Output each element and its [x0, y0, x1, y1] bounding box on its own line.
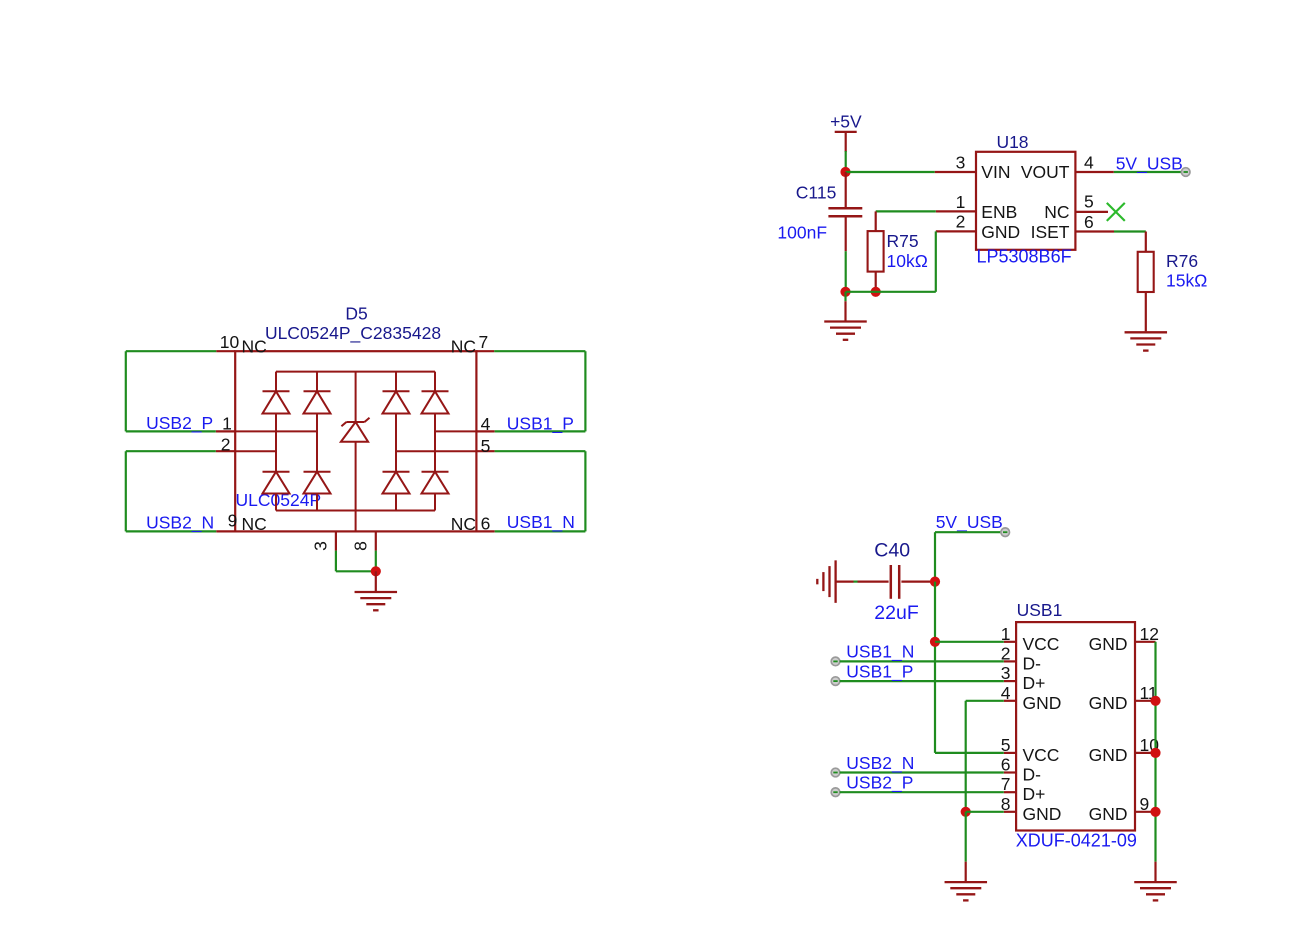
pin name D- (pin 6): [1023, 765, 1042, 785]
label C115: [796, 183, 837, 203]
label U18: [996, 132, 1028, 152]
svg-text:USB2_N: USB2_N: [846, 753, 914, 774]
svg-text:LP5308B6F: LP5308B6F: [977, 247, 1072, 267]
pin name GND (right 4): [1089, 804, 1128, 824]
svg-text:8: 8: [350, 541, 370, 551]
wire USB2_P loop: [126, 351, 216, 431]
wire gnd net vertical to U18 GND: [935, 231, 937, 291]
diode D5 top 4: [422, 391, 449, 413]
node: inner top rail: [276, 371, 435, 373]
svg-text:VCC: VCC: [1023, 634, 1060, 654]
svg-text:1: 1: [222, 413, 232, 433]
wire column 3 middle: [395, 414, 397, 472]
wire column 2 upper: [316, 372, 318, 392]
wire to right ground: [1154, 862, 1156, 882]
net port USB2_N: [831, 768, 840, 777]
svg-text:USB2_P: USB2_P: [146, 413, 213, 434]
value XDUF-0421-09: [1016, 830, 1137, 850]
label R76: [1166, 251, 1198, 271]
wire VOUT to 5V_USB port: [1114, 171, 1182, 173]
wire pin4 GND to pin8: [966, 701, 1004, 812]
pin 12 stub USB1: [1135, 624, 1159, 644]
wire C115 to gnd node: [845, 251, 847, 292]
svg-text:NC: NC: [1044, 202, 1069, 222]
svg-text:GND: GND: [1089, 634, 1128, 654]
svg-text:5: 5: [1084, 192, 1094, 212]
wire +5V to node: [845, 151, 847, 172]
label R75: [887, 231, 919, 251]
IC U18 (LP5308B6F regulator): [976, 152, 1075, 250]
label USB1: [1017, 600, 1063, 620]
svg-text:GND: GND: [981, 222, 1020, 242]
wire 5V_USB: [935, 531, 1001, 533]
pin name GND (right 3): [1089, 745, 1128, 765]
pin 6 stub U18 ISET: [1075, 212, 1114, 232]
net label 5V_USB: [1116, 154, 1183, 175]
power flag +5V: [830, 112, 862, 153]
svg-text:VOUT: VOUT: [1021, 162, 1070, 182]
wire 5V_USB down to C40: [934, 532, 936, 581]
svg-text:12: 12: [1140, 624, 1159, 644]
svg-text:D5: D5: [345, 303, 367, 323]
pin name NC (pin 9): [242, 514, 267, 534]
svg-text:3: 3: [311, 541, 331, 551]
junction GND rail node 9: [1150, 807, 1160, 817]
wire USB2_N loop: [126, 451, 216, 531]
svg-text:10kΩ: 10kΩ: [887, 251, 928, 271]
pin 10 stub: [216, 332, 239, 352]
pin 5 stub: [476, 436, 494, 456]
diode D5 bottom 4: [422, 472, 449, 494]
connector USB1 body: [1016, 622, 1135, 830]
pin name D+ (pin 3): [1023, 673, 1046, 693]
pin 11 stub USB1: [1135, 683, 1158, 703]
wire pin4 internal: [435, 430, 476, 432]
wire column 2 middle: [316, 414, 318, 472]
pin name D+ (pin 7): [1023, 784, 1046, 804]
label ULC0524P_C2835428: [265, 323, 441, 344]
svg-text:XDUF-0421-09: XDUF-0421-09: [1016, 830, 1137, 850]
wire pin8 down: [375, 551, 377, 572]
svg-text:9: 9: [228, 510, 238, 530]
wire pin5 internal: [396, 450, 476, 452]
ground below R76: [1125, 332, 1168, 350]
pin name GND (right 2): [1089, 693, 1128, 713]
svg-text:2: 2: [221, 434, 231, 454]
svg-text:+5V: +5V: [830, 112, 862, 132]
pin name VIN: [981, 162, 1010, 182]
svg-text:NC: NC: [242, 337, 267, 357]
wire USB1_P: [840, 680, 1004, 682]
zener TVS diode center: [341, 372, 370, 532]
svg-text:USB2_P: USB2_P: [846, 773, 913, 794]
wire to ground symbol: [844, 292, 846, 321]
net port USB2_P: [831, 788, 840, 797]
wire ENB net: [876, 210, 936, 212]
wire to D5 ground: [375, 571, 377, 591]
wire column 3 upper: [395, 372, 397, 392]
svg-text:D-: D-: [1023, 653, 1042, 673]
svg-text:7: 7: [479, 332, 489, 352]
pin 1 stub: [216, 413, 235, 433]
pin name GND (pin 4): [1023, 693, 1062, 713]
pin 4 stub USB1: [1001, 683, 1016, 703]
net port 5V_USB: [1181, 168, 1190, 177]
svg-text:10: 10: [220, 332, 240, 352]
svg-text:GND: GND: [1023, 693, 1062, 713]
pin 3 stub USB1: [1001, 663, 1016, 683]
pin 5 stub USB1: [1001, 735, 1016, 755]
svg-text:USB1_N: USB1_N: [846, 642, 914, 663]
wire column 4 lower: [434, 494, 436, 511]
svg-text:4: 4: [1084, 152, 1094, 172]
capacitor C40: [836, 565, 932, 599]
svg-text:USB1_N: USB1_N: [507, 512, 575, 533]
ground left of C40 (rotated): [817, 560, 835, 603]
pin 5 stub U18 NC: [1075, 192, 1108, 212]
svg-text:15kΩ: 15kΩ: [1166, 271, 1207, 291]
wire USB1_P loop: [494, 351, 585, 431]
pin 9 stub USB1: [1135, 794, 1156, 814]
svg-text:GND: GND: [1023, 804, 1062, 824]
node: inner bottom rail: [276, 510, 435, 512]
svg-text:GND: GND: [1089, 804, 1128, 824]
pin name GND: [981, 222, 1020, 242]
pin name NC (pin 6): [451, 514, 476, 534]
svg-text:USB2_N: USB2_N: [146, 512, 214, 533]
svg-text:VCC: VCC: [1023, 745, 1060, 765]
svg-text:6: 6: [481, 514, 491, 534]
pin 1 stub U18 ENB: [936, 192, 976, 212]
junction GND rail node 11: [1150, 696, 1160, 706]
diode D5 top 3: [383, 391, 410, 413]
pin name NC (pin 10): [242, 337, 267, 357]
label C40: [874, 540, 910, 562]
no-connect flag pin 5: [1107, 203, 1125, 221]
svg-text:3: 3: [956, 152, 966, 172]
svg-text:C40: C40: [874, 540, 910, 562]
junction GND node B: [871, 287, 881, 297]
wire column 2 lower: [316, 494, 318, 511]
pin name NC: [1044, 202, 1069, 222]
svg-text:100nF: 100nF: [777, 223, 827, 243]
svg-text:9: 9: [1140, 794, 1150, 814]
wire USB1_N loop: [495, 451, 586, 531]
wire pin1 internal: [235, 430, 317, 432]
svg-text:D+: D+: [1023, 673, 1046, 693]
pin name ENB: [981, 202, 1017, 222]
value 100nF: [777, 223, 827, 243]
pin 4 stub: [476, 414, 494, 434]
net label USB1_P (USB1): [846, 661, 913, 682]
value ULC0524P: [236, 490, 322, 510]
svg-text:USB1: USB1: [1017, 600, 1063, 620]
svg-text:D+: D+: [1023, 784, 1046, 804]
wire ISET to R76: [1114, 230, 1146, 232]
wire VCC rail down: [934, 582, 936, 753]
wire node to U18 pin 3: [846, 171, 935, 173]
ground below D5: [355, 592, 398, 610]
wire pin8 GND: [966, 811, 1004, 813]
pin 1 stub USB1: [1001, 624, 1016, 644]
svg-text:C115: C115: [796, 183, 837, 203]
net label USB1_N (USB1): [846, 642, 914, 663]
net label USB1_N: [507, 512, 575, 533]
wire USB2_P: [840, 791, 1004, 793]
pin name GND (right 1): [1089, 634, 1128, 654]
wire column 4 middle: [434, 414, 436, 472]
pin name VOUT: [1021, 162, 1070, 182]
diode D5 top 2: [304, 391, 331, 413]
net label USB2_P (USB1): [846, 773, 913, 794]
pin 9 stub: [216, 510, 237, 531]
svg-text:ISET: ISET: [1031, 222, 1070, 242]
junction GND node left: [961, 807, 971, 817]
net label USB2_N (USB1): [846, 753, 914, 774]
svg-text:NC: NC: [451, 514, 476, 534]
svg-text:ULC0524P_C2835428: ULC0524P_C2835428: [265, 323, 441, 344]
pin name VCC (pin 1): [1023, 634, 1060, 654]
svg-text:USB1_P: USB1_P: [846, 661, 913, 682]
pin 2 stub: [216, 434, 235, 454]
svg-text:NC: NC: [242, 514, 267, 534]
wire USB1_N: [840, 660, 1004, 662]
svg-text:1: 1: [956, 192, 966, 212]
junction VCC node: [930, 637, 940, 647]
svg-text:ENB: ENB: [981, 202, 1017, 222]
junction VIN node: [840, 167, 850, 177]
pin 6 stub: [476, 514, 494, 534]
wire column 4 upper: [434, 372, 436, 392]
diode D5 bottom 1: [263, 472, 290, 494]
svg-text:R76: R76: [1166, 251, 1198, 271]
wire to left ground: [965, 812, 967, 882]
wire pin5 VCC: [935, 752, 1004, 754]
pin 8 stub D5: [350, 531, 375, 550]
pin 4 stub U18 VOUT: [1075, 152, 1113, 172]
wire pin3 down: [336, 551, 376, 572]
ground USB1 left: [945, 882, 988, 900]
diode D5 top 1: [263, 391, 290, 413]
net label USB2_N: [146, 512, 214, 533]
junction GND node A: [840, 287, 850, 297]
resistor R75: [868, 211, 884, 291]
svg-text:5: 5: [481, 436, 491, 456]
diode array D5 body: [235, 351, 476, 531]
wire column 1 middle: [275, 414, 277, 472]
pin 2 stub USB1: [1001, 643, 1016, 663]
net label USB2_P: [146, 413, 213, 434]
pin 6 stub USB1: [1001, 755, 1016, 775]
net port 5V_USB (USB1): [1001, 528, 1010, 537]
svg-text:2: 2: [956, 212, 966, 232]
junction GND rail node 10: [1150, 748, 1160, 758]
net port USB1_P: [831, 677, 840, 686]
pin 3 stub D5: [311, 531, 336, 550]
svg-text:USB1_P: USB1_P: [507, 414, 574, 435]
net label 5V_USB (USB1): [936, 512, 1003, 533]
svg-text:R75: R75: [887, 231, 919, 251]
capacitor C115: [828, 172, 862, 251]
wire column 3 lower: [395, 494, 397, 511]
svg-text:GND: GND: [1089, 745, 1128, 765]
pin 3 stub U18 VIN: [935, 152, 976, 172]
wire pin1 VCC: [935, 641, 1004, 643]
svg-text:6: 6: [1084, 212, 1094, 232]
svg-text:NC: NC: [451, 337, 476, 357]
diode D5 bottom 2: [304, 472, 331, 494]
wire gnd net horizontal: [846, 291, 936, 293]
wire USB2_N: [840, 771, 1004, 773]
pin 10 stub USB1: [1135, 735, 1159, 755]
svg-text:5V_USB: 5V_USB: [1116, 154, 1183, 175]
diode D5 bottom 3: [383, 472, 410, 494]
value 15kΩ: [1166, 271, 1207, 291]
pin name D- (pin 2): [1023, 653, 1042, 673]
pin 2 stub U18 GND: [936, 212, 976, 232]
svg-text:22uF: 22uF: [874, 602, 919, 624]
ground below C115: [824, 322, 867, 340]
net port USB1_N: [831, 657, 840, 666]
wire right GND rail: [1154, 642, 1156, 862]
svg-text:5V_USB: 5V_USB: [936, 512, 1003, 533]
pin name VCC (pin 5): [1023, 745, 1060, 765]
pin 8 stub USB1: [1001, 794, 1016, 814]
junction D5 gnd node: [371, 566, 381, 576]
wire pin2 internal: [235, 450, 276, 452]
pin 7 stub: [476, 332, 494, 352]
resistor R76: [1138, 232, 1154, 332]
ground USB1 right: [1134, 882, 1177, 900]
svg-text:U18: U18: [996, 132, 1028, 152]
wire column 1 upper: [275, 372, 277, 392]
svg-text:D-: D-: [1023, 765, 1042, 785]
pin name ISET: [1031, 222, 1070, 242]
value 10kΩ: [887, 251, 928, 271]
svg-text:4: 4: [481, 414, 491, 434]
pin name GND (pin 8): [1023, 804, 1062, 824]
net label USB1_P: [507, 414, 574, 435]
label D5: [345, 303, 367, 323]
pin 7 stub USB1: [1001, 774, 1016, 794]
wire column 1 lower: [275, 494, 277, 511]
value label LP5308B6F: [977, 247, 1072, 267]
pin name NC (pin 7): [451, 337, 476, 357]
svg-text:VIN: VIN: [981, 162, 1010, 182]
value 22uF: [874, 602, 919, 624]
svg-text:GND: GND: [1089, 693, 1128, 713]
junction C40 node: [930, 577, 940, 587]
